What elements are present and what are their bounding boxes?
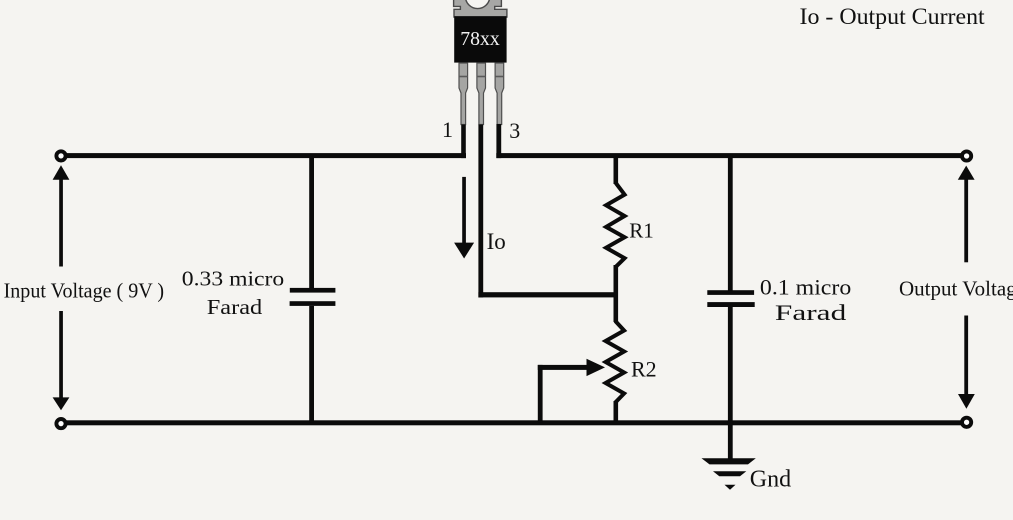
svg-text:R1: R1 (629, 219, 654, 243)
ground symbol (702, 458, 756, 490)
wiper arrow of R2 (538, 359, 605, 423)
node input- terminal (56, 419, 65, 428)
wire pin1 to rail (461, 125, 466, 159)
node output- terminal (962, 418, 971, 427)
svg-text:1: 1 (442, 117, 453, 142)
wire pin2 down (478, 125, 483, 298)
capacitor C2 0.1uF (707, 155, 754, 461)
svg-text:Gnd: Gnd (750, 466, 791, 492)
pin 1 lead (459, 63, 468, 125)
input voltage measure arrow (53, 165, 70, 410)
svg-text:Farad: Farad (207, 295, 263, 319)
svg-text:Io: Io (487, 229, 506, 254)
wire top-right rail (496, 153, 961, 158)
svg-text:Output Voltage: Output Voltage (899, 277, 1013, 301)
svg-text:Input Voltage ( 9V ): Input Voltage ( 9V ) (4, 279, 165, 303)
svg-text:Farad: Farad (775, 300, 846, 325)
wire bottom rail (63, 420, 961, 425)
wire pin3 to rail (496, 124, 501, 158)
svg-text:3: 3 (509, 118, 520, 143)
node input+ terminal (56, 151, 65, 160)
wire gnd horizontal (pin2 to R1/R2 junction) (478, 292, 618, 297)
svg-text:78xx: 78xx (460, 28, 500, 50)
svg-text:Io - Output Current: Io - Output Current (800, 4, 986, 29)
wire top-left rail (63, 153, 466, 158)
svg-text:R2: R2 (631, 357, 657, 382)
capacitor C1 0.33uF (290, 155, 336, 423)
svg-text:0.33 micro: 0.33 micro (182, 267, 285, 291)
resistor R1 (606, 155, 625, 322)
current arrow Io (454, 177, 474, 259)
pin 3 lead (495, 63, 504, 125)
node output+ terminal (962, 151, 971, 160)
output voltage measure arrow (958, 166, 975, 409)
pin 2 lead (477, 63, 486, 125)
regulator U1 78xx (454, 0, 507, 125)
svg-text:0.1 micro: 0.1 micro (760, 274, 851, 299)
resistor R2 (adjustable) (606, 321, 625, 423)
